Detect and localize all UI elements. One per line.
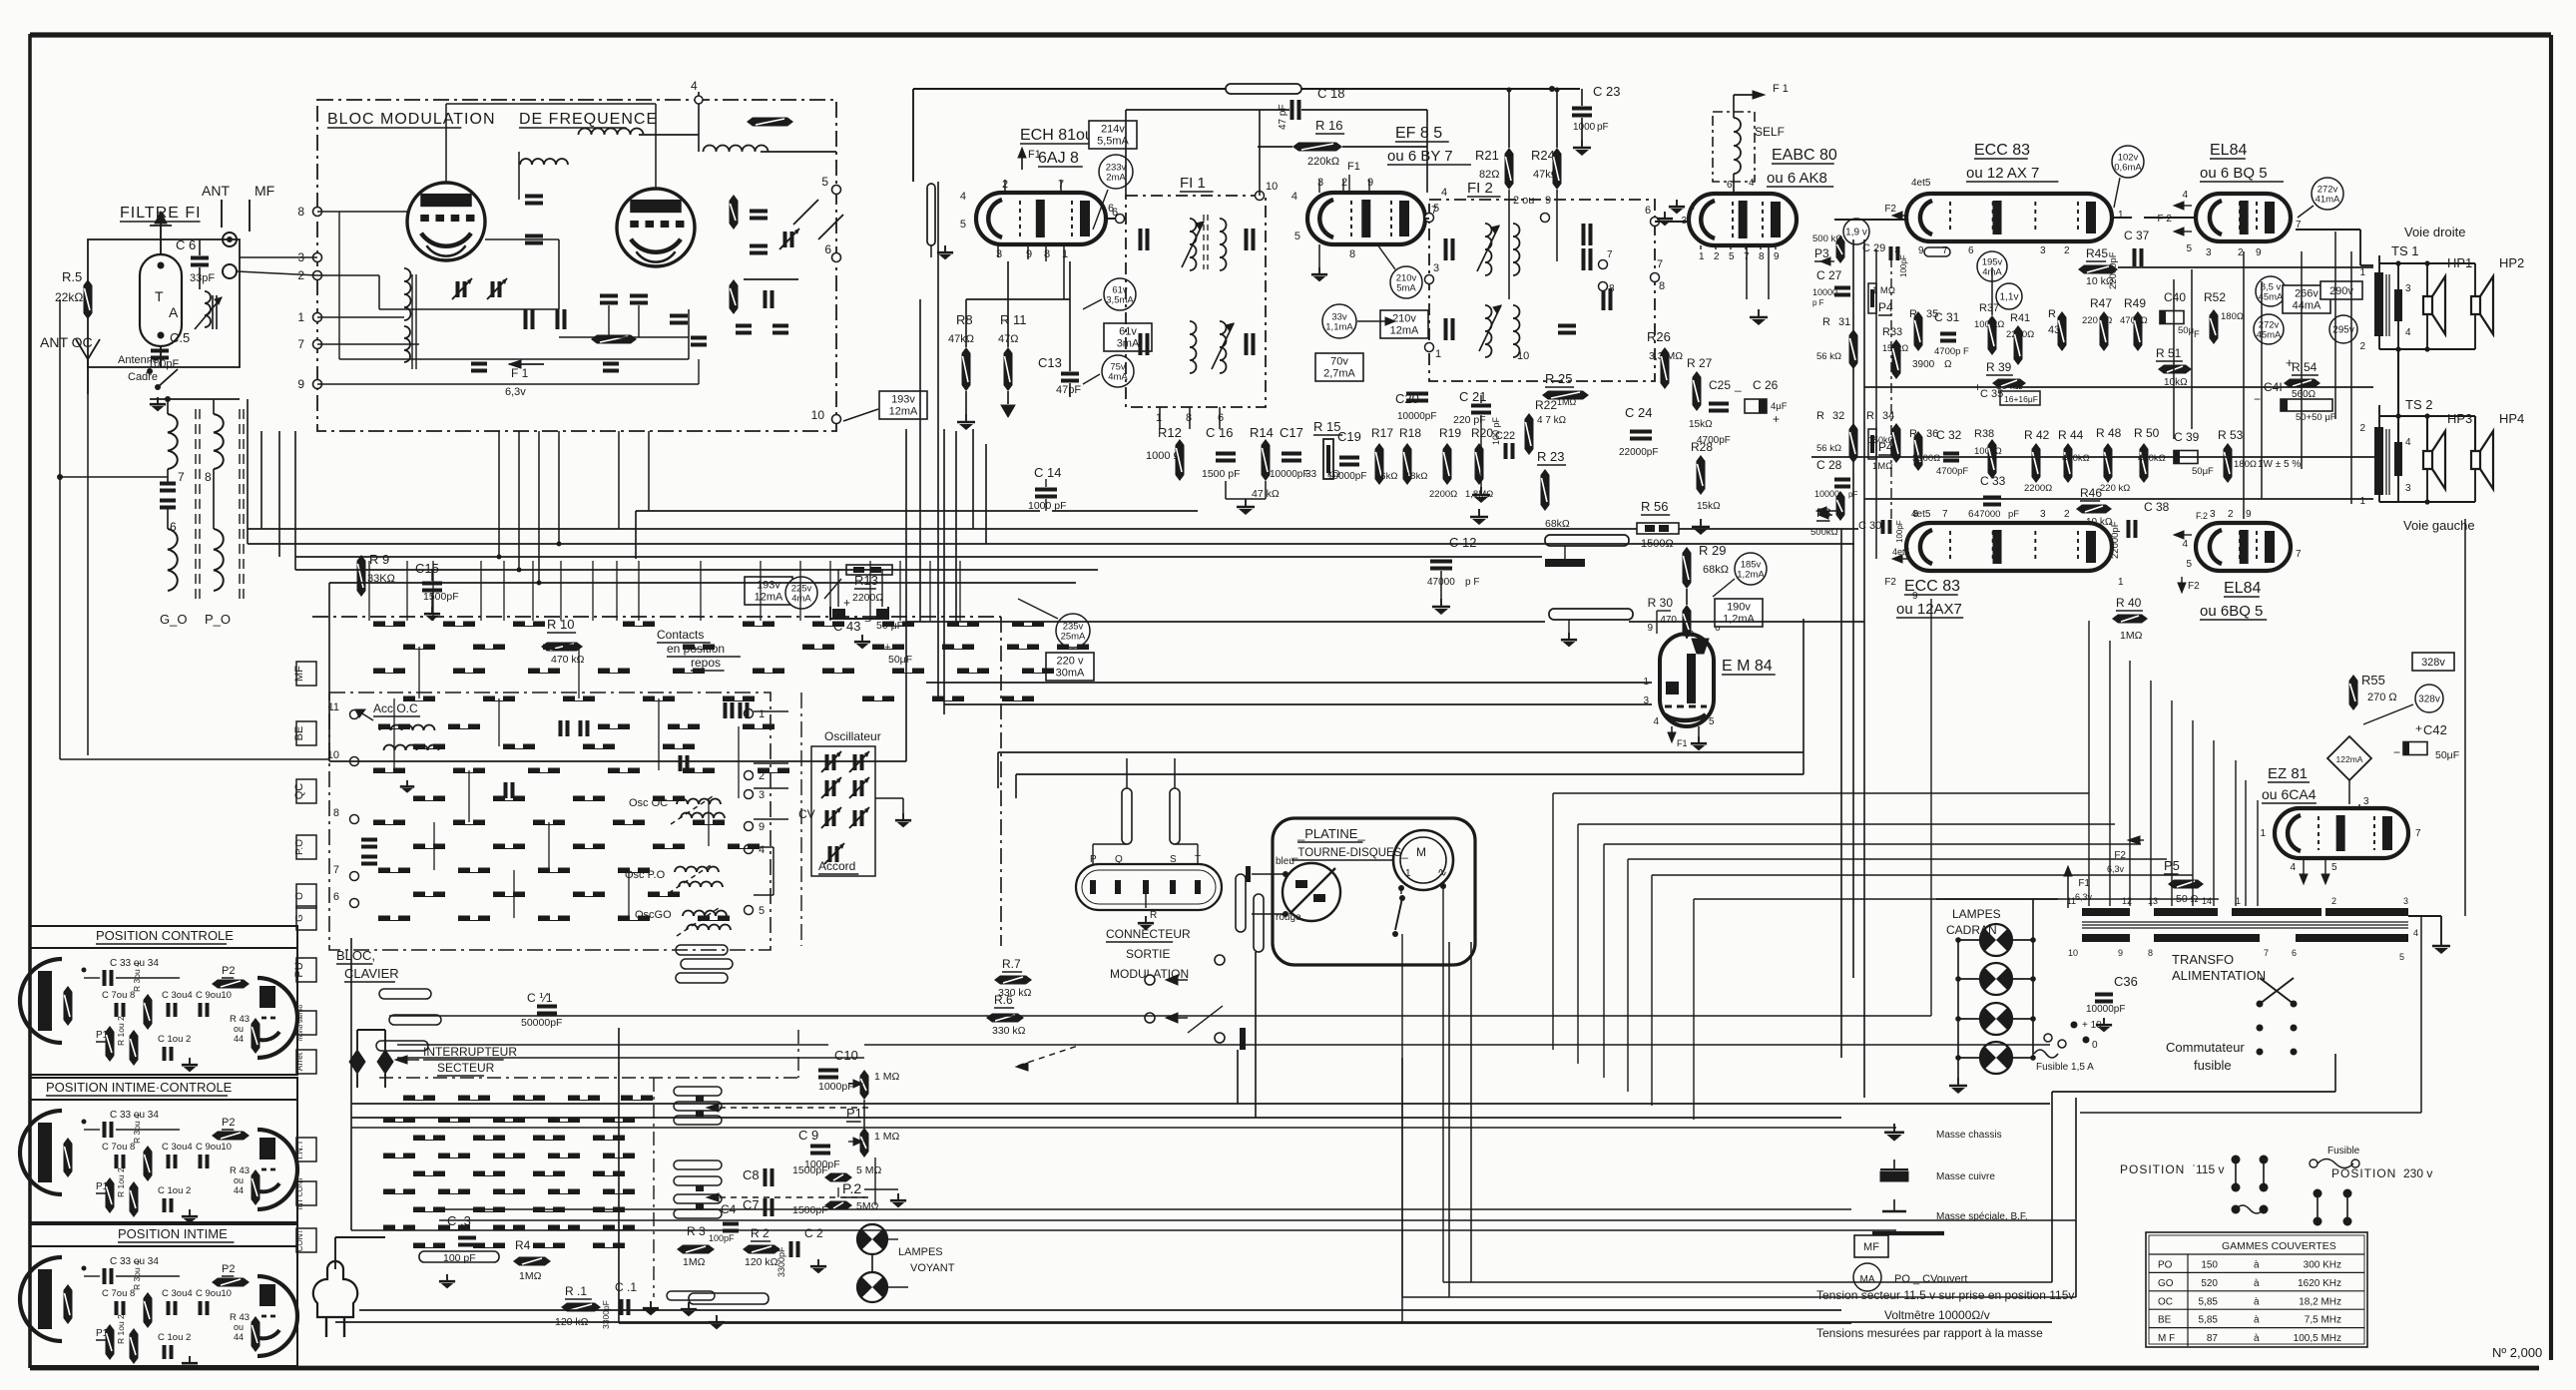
svg-text:210v: 210v xyxy=(1392,313,1416,325)
svg-text:4: 4 xyxy=(1291,191,1297,203)
svg-text:P.2: P.2 xyxy=(842,1180,861,1196)
svg-text:C 2: C 2 xyxy=(804,1226,823,1240)
svg-text:F2: F2 xyxy=(1884,577,1896,588)
svg-text:R 37ou 38: R 37ou 38 xyxy=(42,1282,52,1324)
svg-text:EF 8 5: EF 8 5 xyxy=(1395,125,1442,142)
svg-text:520: 520 xyxy=(2201,1278,2218,1289)
svg-text:270 Ω: 270 Ω xyxy=(2367,692,2397,703)
svg-text:∿: ∿ xyxy=(1437,865,1447,879)
svg-text:120 kΩ: 120 kΩ xyxy=(745,1256,778,1268)
svg-text:6AJ 8: 6AJ 8 xyxy=(1038,150,1079,167)
svg-text:4 7 kΩ: 4 7 kΩ xyxy=(1537,415,1567,426)
svg-text:100pF: 100pF xyxy=(148,358,179,370)
svg-text:5: 5 xyxy=(759,905,765,917)
svg-text:220kΩ: 220kΩ xyxy=(1307,156,1339,168)
svg-text:4mA: 4mA xyxy=(791,594,811,605)
svg-text:0: 0 xyxy=(2092,1040,2098,1051)
svg-text:MF: MF xyxy=(293,666,305,682)
svg-text:R 3ou 4: R 3ou 4 xyxy=(132,1260,142,1290)
svg-text:12mA: 12mA xyxy=(755,592,783,604)
svg-text:4et5: 4et5 xyxy=(1911,178,1931,189)
svg-text:2mA: 2mA xyxy=(1106,173,1126,184)
svg-text:0,6mA: 0,6mA xyxy=(2114,163,2142,174)
svg-text:ANT: ANT xyxy=(202,183,230,199)
svg-text:A: A xyxy=(169,304,179,320)
svg-text:CONNECTEUR: CONNECTEUR xyxy=(1106,927,1191,941)
svg-text:PO: PO xyxy=(2158,1260,2173,1271)
svg-text:7: 7 xyxy=(2264,948,2269,958)
svg-text:F1: F1 xyxy=(1347,161,1360,173)
svg-text:15kΩ: 15kΩ xyxy=(1697,501,1721,512)
svg-text:LAMPES: LAMPES xyxy=(1952,907,2001,921)
svg-text:3: 3 xyxy=(2405,283,2411,294)
svg-text:C 3ou4: C 3ou4 xyxy=(162,1288,193,1299)
svg-text:56 kΩ: 56 kΩ xyxy=(1816,351,1841,362)
svg-text:50μF: 50μF xyxy=(2435,749,2459,761)
svg-text:C22: C22 xyxy=(1495,430,1515,442)
svg-text:9: 9 xyxy=(1026,248,1032,260)
svg-text:C40: C40 xyxy=(2164,290,2186,304)
svg-text:−: − xyxy=(2254,392,2261,406)
svg-text:10000: 10000 xyxy=(1814,489,1839,499)
svg-text:M F: M F xyxy=(2158,1333,2175,1344)
svg-text:C 39: C 39 xyxy=(2174,430,2200,444)
svg-text:C 3ou4: C 3ou4 xyxy=(162,1142,193,1153)
svg-text:56kΩ: 56kΩ xyxy=(1375,471,1397,482)
svg-text:R 25: R 25 xyxy=(1545,371,1572,386)
svg-text:pF: pF xyxy=(1597,122,1609,133)
svg-text:F 1: F 1 xyxy=(1773,83,1789,95)
svg-text:INTERRUPTEUR: INTERRUPTEUR xyxy=(423,1045,517,1059)
svg-text:P2: P2 xyxy=(222,965,235,977)
svg-text:R38: R38 xyxy=(1974,428,1994,440)
svg-text:1,1v: 1,1v xyxy=(2000,292,2019,303)
svg-text:7: 7 xyxy=(297,337,304,351)
svg-text:POSITION: POSITION xyxy=(2331,1166,2396,1180)
svg-text:4: 4 xyxy=(1749,178,1755,189)
svg-text:10: 10 xyxy=(2068,948,2078,958)
svg-text:10000: 10000 xyxy=(1812,287,1837,297)
svg-text:ou 6 BQ 5: ou 6 BQ 5 xyxy=(2200,165,2268,182)
svg-text:2: 2 xyxy=(1714,251,1720,262)
svg-text:R19: R19 xyxy=(1439,426,1461,440)
svg-text:F: F xyxy=(2194,329,2200,340)
svg-text:2: 2 xyxy=(1341,177,1347,189)
svg-text:470: 470 xyxy=(1660,615,1677,626)
svg-text:10: 10 xyxy=(811,408,825,422)
svg-text:R20: R20 xyxy=(1471,426,1493,440)
svg-text:_: _ xyxy=(1734,378,1742,392)
svg-text:2 ou: 2 ou xyxy=(1513,195,1534,207)
svg-text:R14: R14 xyxy=(1250,425,1274,440)
svg-text:_PLATINE_: _PLATINE_ xyxy=(1296,826,1365,841)
svg-text:5: 5 xyxy=(1709,716,1715,727)
svg-text:R 3ou 4: R 3ou 4 xyxy=(132,962,142,992)
svg-text:R 51: R 51 xyxy=(2156,346,2182,360)
svg-text:16+16μF: 16+16μF xyxy=(2004,394,2038,404)
svg-text:R .1: R .1 xyxy=(565,1284,587,1298)
svg-text:SECTEUR: SECTEUR xyxy=(437,1061,495,1075)
svg-text:Oscillateur: Oscillateur xyxy=(824,729,881,743)
svg-text:Commutateur: Commutateur xyxy=(2166,1040,2245,1055)
svg-text:1MΩ: 1MΩ xyxy=(683,1256,706,1268)
svg-text:5: 5 xyxy=(1729,251,1735,262)
svg-text:R55: R55 xyxy=(2361,673,2385,688)
svg-text:6: 6 xyxy=(1968,509,1974,520)
svg-text:9: 9 xyxy=(759,821,765,833)
svg-text:4: 4 xyxy=(2413,928,2418,938)
svg-text:ou: ou xyxy=(234,1322,244,1332)
svg-text:R41: R41 xyxy=(2010,312,2030,324)
svg-text:4: 4 xyxy=(1653,716,1659,727)
svg-text:1,2mA: 1,2mA xyxy=(1737,570,1765,581)
svg-text:1: 1 xyxy=(2118,577,2124,588)
svg-text:S: S xyxy=(1170,854,1177,865)
svg-text:POSITION: POSITION xyxy=(2120,1162,2185,1176)
svg-text:à: à xyxy=(2254,1296,2260,1307)
svg-text:3900: 3900 xyxy=(1912,359,1935,370)
svg-text:R: R xyxy=(1822,316,1830,328)
svg-text:1620 KHz: 1620 KHz xyxy=(2298,1278,2341,1289)
svg-text:4μF: 4μF xyxy=(1771,401,1788,412)
svg-text:M: M xyxy=(1416,845,1426,859)
svg-text:CLAVIER: CLAVIER xyxy=(344,966,399,981)
svg-text:R: R xyxy=(1816,410,1824,422)
svg-text:BLOC,: BLOC, xyxy=(336,948,375,963)
svg-text:100pF: 100pF xyxy=(1899,254,1908,277)
svg-text:18kΩ: 18kΩ xyxy=(1405,471,1427,482)
svg-text:470kΩ: 470kΩ xyxy=(2138,453,2166,464)
svg-text:10000pF: 10000pF xyxy=(1397,411,1436,422)
svg-text:R24: R24 xyxy=(1531,148,1555,163)
svg-text:R 3: R 3 xyxy=(687,1224,706,1238)
svg-text:Voie droite: Voie droite xyxy=(2404,225,2465,239)
svg-text:3: 3 xyxy=(2040,245,2046,256)
svg-text:1: 1 xyxy=(1699,251,1705,262)
svg-text:2200Ω: 2200Ω xyxy=(852,592,883,604)
svg-text:R46: R46 xyxy=(2080,486,2102,500)
svg-text:8: 8 xyxy=(1044,248,1050,260)
svg-text:15kΩ: 15kΩ xyxy=(1689,419,1713,430)
svg-text:4et5: 4et5 xyxy=(1892,547,1910,557)
svg-text:Fusible: Fusible xyxy=(2327,1146,2360,1157)
svg-text:+: + xyxy=(884,642,890,654)
svg-text:C 9: C 9 xyxy=(798,1128,818,1143)
svg-text:122mA: 122mA xyxy=(2336,754,2363,764)
svg-text:1: 1 xyxy=(1156,412,1162,424)
svg-text:à: à xyxy=(2254,1333,2260,1344)
svg-text:47pF: 47pF xyxy=(1056,384,1081,396)
svg-text:214v: 214v xyxy=(1101,124,1125,136)
svg-text:6: 6 xyxy=(1218,412,1224,424)
svg-text:Voie gauche: Voie gauche xyxy=(2403,518,2475,533)
svg-text:C 9ou10: C 9ou10 xyxy=(196,990,232,1001)
svg-text:68kΩ: 68kΩ xyxy=(1703,564,1729,576)
svg-text:C 28: C 28 xyxy=(1816,458,1842,472)
svg-text:7: 7 xyxy=(1942,509,1948,520)
svg-text:HP3: HP3 xyxy=(2447,411,2472,426)
svg-text:p F: p F xyxy=(1812,298,1824,307)
svg-text:3: 3 xyxy=(2040,509,2046,520)
svg-text:1: 1 xyxy=(1405,868,1411,879)
svg-text:ou 6CA4: ou 6CA4 xyxy=(2262,786,2317,802)
svg-text:4700p F: 4700p F xyxy=(1934,346,1969,357)
svg-text:C.5: C.5 xyxy=(170,330,190,345)
svg-text:1000: 1000 xyxy=(1573,122,1596,133)
svg-text:TS 1: TS 1 xyxy=(2391,243,2418,258)
svg-text:Fusible 1,5 A: Fusible 1,5 A xyxy=(2036,1062,2094,1073)
svg-text:13: 13 xyxy=(2148,896,2158,906)
svg-text:C 9ou10: C 9ou10 xyxy=(196,1288,232,1299)
svg-text:fusible: fusible xyxy=(2194,1058,2232,1073)
svg-text:3,5mA: 3,5mA xyxy=(1106,295,1134,306)
svg-text:10000pF: 10000pF xyxy=(1327,471,1366,482)
svg-text:12mA: 12mA xyxy=(1390,325,1419,337)
svg-text:2: 2 xyxy=(2064,245,2070,256)
svg-text:100pF: 100pF xyxy=(709,1233,735,1243)
svg-text:3: 3 xyxy=(1317,177,1323,189)
svg-text:3900Ω: 3900Ω xyxy=(1912,453,1940,464)
svg-text:C 23: C 23 xyxy=(1593,84,1620,99)
svg-text:ALIMENTATION: ALIMENTATION xyxy=(2172,968,2266,983)
svg-text:4: 4 xyxy=(2290,862,2296,873)
svg-text:Arrêt: Arrêt xyxy=(294,1052,304,1071)
svg-text:330 kΩ: 330 kΩ xyxy=(992,1025,1026,1037)
svg-text:F1: F1 xyxy=(1028,149,1041,161)
svg-text:10000pF: 10000pF xyxy=(1270,469,1308,480)
svg-text:CV: CV xyxy=(798,807,815,821)
svg-text:5: 5 xyxy=(1433,203,1439,215)
svg-text:C 31: C 31 xyxy=(1934,310,1960,324)
svg-text:+: + xyxy=(2415,721,2422,735)
svg-text:R 30: R 30 xyxy=(1648,596,1674,610)
svg-text:8: 8 xyxy=(205,470,212,484)
svg-text:12mA: 12mA xyxy=(889,406,918,418)
svg-text:9: 9 xyxy=(1367,177,1373,189)
svg-text:10000pF: 10000pF xyxy=(2086,1004,2125,1015)
svg-text:ou: ou xyxy=(234,1175,244,1185)
svg-text:R28: R28 xyxy=(1691,440,1713,454)
svg-text:328v: 328v xyxy=(2421,657,2445,669)
svg-text:8: 8 xyxy=(297,205,304,219)
svg-text:ou 12AX7: ou 12AX7 xyxy=(1896,601,1962,618)
svg-text:OC: OC xyxy=(2158,1296,2173,1307)
svg-text:1 MΩ: 1 MΩ xyxy=(874,1071,900,1083)
svg-text:HP4: HP4 xyxy=(2499,411,2524,426)
svg-text:R 29: R 29 xyxy=(1699,543,1726,558)
svg-text:C10: C10 xyxy=(834,1048,858,1063)
svg-text:6: 6 xyxy=(1645,205,1651,217)
svg-text:C19: C19 xyxy=(1337,429,1361,444)
svg-text:C 38: C 38 xyxy=(2144,500,2170,514)
svg-text:87: 87 xyxy=(2207,1333,2219,1344)
svg-text:3: 3 xyxy=(996,248,1002,260)
svg-text:BLOC MODULATION: BLOC MODULATION xyxy=(327,111,496,128)
svg-text:9: 9 xyxy=(1647,623,1653,634)
svg-text:FI 2: FI 2 xyxy=(1467,180,1493,197)
svg-text:R 1ou 2: R 1ou 2 xyxy=(116,1016,126,1046)
svg-text:TS 2: TS 2 xyxy=(2405,397,2432,412)
svg-text:8: 8 xyxy=(1659,280,1665,292)
svg-text:8: 8 xyxy=(1759,251,1765,262)
svg-text:Cadre: Cadre xyxy=(128,371,158,383)
svg-text:8: 8 xyxy=(1912,509,1918,520)
svg-text:Tension secteur 11.5 v sur p: Tension secteur 11.5 v sur prise en posi… xyxy=(1816,1288,2074,1302)
svg-text:DE FREQUENCE: DE FREQUENCE xyxy=(519,111,658,128)
svg-text:R: R xyxy=(2048,308,2056,320)
svg-text:PU: PU xyxy=(293,962,305,977)
svg-text:290v: 290v xyxy=(2329,285,2353,297)
svg-text:500kΩ: 500kΩ xyxy=(1810,527,1838,538)
svg-text:1: 1 xyxy=(2260,828,2266,839)
svg-text:R4: R4 xyxy=(515,1238,531,1252)
svg-text:5: 5 xyxy=(2186,559,2192,570)
svg-text:POSITION INTIME: POSITION INTIME xyxy=(118,1226,228,1241)
svg-text:6,3v: 6,3v xyxy=(2075,892,2093,902)
svg-text:C13: C13 xyxy=(1038,355,1062,370)
svg-text:C 6: C 6 xyxy=(176,237,196,252)
svg-text:3: 3 xyxy=(2403,896,2408,906)
svg-text:7,5 MHz: 7,5 MHz xyxy=(2305,1315,2341,1326)
svg-text:300 KHz: 300 KHz xyxy=(2304,1260,2341,1271)
svg-text:4: 4 xyxy=(691,79,698,93)
svg-text:Voltmêtre 10000Ω/v: Voltmêtre 10000Ω/v xyxy=(1884,1308,1990,1322)
svg-text:pF: pF xyxy=(2008,509,2019,520)
svg-text:R49: R49 xyxy=(2124,296,2146,310)
svg-text:50μF: 50μF xyxy=(888,654,912,666)
svg-text:R 9: R 9 xyxy=(369,552,389,567)
svg-text:61v: 61v xyxy=(1119,326,1137,338)
svg-text:25mA: 25mA xyxy=(1061,632,1086,643)
svg-text:180Ω: 180Ω xyxy=(2234,459,2257,470)
svg-text:1,1mA: 1,1mA xyxy=(1325,322,1353,333)
svg-text:3: 3 xyxy=(2405,483,2411,494)
svg-text:à: à xyxy=(2254,1260,2260,1271)
svg-text:POSITION CONTROLE: POSITION CONTROLE xyxy=(96,928,234,943)
svg-text:4: 4 xyxy=(2405,437,2411,448)
svg-text:9: 9 xyxy=(2246,509,2252,520)
svg-text:328v: 328v xyxy=(2418,695,2440,705)
svg-text:2: 2 xyxy=(2238,247,2244,258)
svg-text:32: 32 xyxy=(1832,410,1844,422)
svg-text:2: 2 xyxy=(2228,509,2234,520)
svg-text:5: 5 xyxy=(821,175,828,189)
svg-text:E M 84: E M 84 xyxy=(1722,658,1773,675)
svg-text:C 32: C 32 xyxy=(1936,428,1962,442)
svg-text:ou 6BQ 5: ou 6BQ 5 xyxy=(2200,603,2263,620)
svg-text:C8: C8 xyxy=(743,1167,760,1182)
svg-text:7: 7 xyxy=(1691,202,1697,213)
svg-text:4: 4 xyxy=(2182,539,2188,550)
svg-text:C17: C17 xyxy=(1280,425,1303,440)
svg-text:_TOURNE-DISQUES_: _TOURNE-DISQUES_ xyxy=(1290,847,1408,859)
svg-text:C 9ou10: C 9ou10 xyxy=(196,1142,232,1153)
svg-text:1500pF: 1500pF xyxy=(792,1164,828,1176)
svg-text:266v: 266v xyxy=(2295,288,2318,300)
svg-text:1,9 v: 1,9 v xyxy=(1845,228,1867,238)
svg-text:2,7mA: 2,7mA xyxy=(1323,368,1355,380)
svg-text:ou 12 AX 7: ou 12 AX 7 xyxy=(1966,165,2039,182)
svg-text:TRANSFO: TRANSFO xyxy=(2172,952,2234,967)
svg-text:R26: R26 xyxy=(1647,329,1671,344)
svg-text:ANT OC: ANT OC xyxy=(40,334,93,350)
svg-text:MF: MF xyxy=(1863,1241,1879,1253)
svg-text:ou 6 BY 7: ou 6 BY 7 xyxy=(1387,148,1453,165)
svg-text:6: 6 xyxy=(333,891,339,903)
svg-text:P2: P2 xyxy=(222,1263,235,1275)
svg-text:à: à xyxy=(2254,1315,2260,1326)
svg-text:3: 3 xyxy=(2363,796,2369,807)
svg-text:Masse cuivre: Masse cuivre xyxy=(1936,1171,1995,1182)
svg-text:30mA: 30mA xyxy=(1056,668,1085,680)
svg-text:5: 5 xyxy=(2186,243,2192,254)
svg-text:4: 4 xyxy=(1441,187,1447,199)
svg-text:1500pF: 1500pF xyxy=(792,1204,828,1216)
svg-text:C 1ou 2: C 1ou 2 xyxy=(158,1332,191,1343)
svg-text:C 3ou4: C 3ou4 xyxy=(162,990,193,1001)
svg-text:C 7ou 8: C 7ou 8 xyxy=(102,990,135,1001)
svg-text:R 1ou 2: R 1ou 2 xyxy=(116,1314,126,1344)
svg-text:R 44: R 44 xyxy=(2058,428,2084,442)
svg-text:2: 2 xyxy=(2331,896,2336,906)
svg-text:5: 5 xyxy=(960,219,966,231)
svg-text:44: 44 xyxy=(234,1332,244,1342)
svg-text:+: + xyxy=(843,596,850,610)
svg-text:p F: p F xyxy=(1465,577,1479,588)
svg-text:1 MΩ: 1 MΩ xyxy=(874,1131,900,1143)
svg-text:PO _ CVouvert: PO _ CVouvert xyxy=(1894,1273,1967,1285)
svg-text:R47: R47 xyxy=(2090,296,2112,310)
svg-text:8: 8 xyxy=(1609,283,1615,294)
svg-text:QC: QC xyxy=(293,783,305,800)
svg-text:BE: BE xyxy=(2158,1315,2172,1326)
svg-text:47kΩ: 47kΩ xyxy=(948,333,974,345)
svg-text:C36: C36 xyxy=(2114,974,2138,989)
svg-text:47000: 47000 xyxy=(1974,509,2000,520)
svg-text:R33: R33 xyxy=(1882,326,1902,338)
svg-text:Q: Q xyxy=(1115,854,1123,865)
svg-text:470kΩ: 470kΩ xyxy=(2062,453,2090,464)
svg-text:9: 9 xyxy=(2118,948,2123,958)
svg-text:C 14: C 14 xyxy=(1034,465,1061,480)
svg-text:repos: repos xyxy=(691,656,721,670)
svg-text:3: 3 xyxy=(1433,262,1439,274)
svg-text:Accord: Accord xyxy=(818,859,855,873)
svg-text:G: G xyxy=(294,914,305,922)
svg-text:9: 9 xyxy=(1912,591,1918,602)
svg-text:BE: BE xyxy=(293,726,305,741)
svg-text:P.O: P.O xyxy=(294,839,305,855)
svg-text:5mA: 5mA xyxy=(1396,283,1416,294)
svg-text:220 kΩ: 220 kΩ xyxy=(2100,483,2130,494)
svg-text:100,5 MHz: 100,5 MHz xyxy=(2294,1333,2341,1344)
svg-text:R8: R8 xyxy=(956,312,973,327)
svg-text:SELF: SELF xyxy=(1755,125,1785,139)
svg-text:R 50: R 50 xyxy=(2134,426,2160,440)
svg-text:R 2: R 2 xyxy=(751,1226,770,1240)
svg-text:1: 1 xyxy=(2118,210,2124,221)
svg-text:G_O: G_O xyxy=(160,612,187,627)
svg-text:ECC 83: ECC 83 xyxy=(1974,142,2030,159)
svg-text:Ω: Ω xyxy=(1944,359,1952,370)
svg-text:193v: 193v xyxy=(891,394,915,406)
svg-text:1: 1 xyxy=(2236,896,2241,906)
svg-text:C 7ou 8: C 7ou 8 xyxy=(102,1142,135,1153)
svg-text:56 kΩ: 56 kΩ xyxy=(1816,443,1841,454)
svg-text:1500 pF: 1500 pF xyxy=(1202,468,1241,480)
svg-text:14: 14 xyxy=(2202,896,2212,906)
svg-text:7: 7 xyxy=(1607,249,1613,260)
